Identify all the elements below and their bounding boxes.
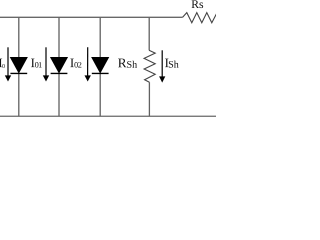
diode D1 [10,57,27,73]
wire bottom bus [0,115,216,117]
arrow current ISh [159,50,165,82]
diode D3 [92,57,109,73]
wire diode D3 branch [99,17,101,58]
label RSh [118,59,137,68]
arrow current Io1 [43,47,49,81]
label Io1 [31,59,42,68]
label Io2 [70,59,81,68]
resistor RSh shunt branch [144,17,155,116]
label Io [0,59,5,68]
arrow current Io [5,47,11,81]
label Rs [192,0,204,8]
solar cell equivalent circuit schematic [0,0,216,120]
wire top bus [0,16,183,18]
resistor Rs [183,13,217,23]
diode D2 [51,57,68,73]
wire diode D1 branch [18,17,20,58]
arrow current Io2 [85,47,91,81]
label ISh [165,59,179,68]
wire diode D2 branch [58,17,60,58]
